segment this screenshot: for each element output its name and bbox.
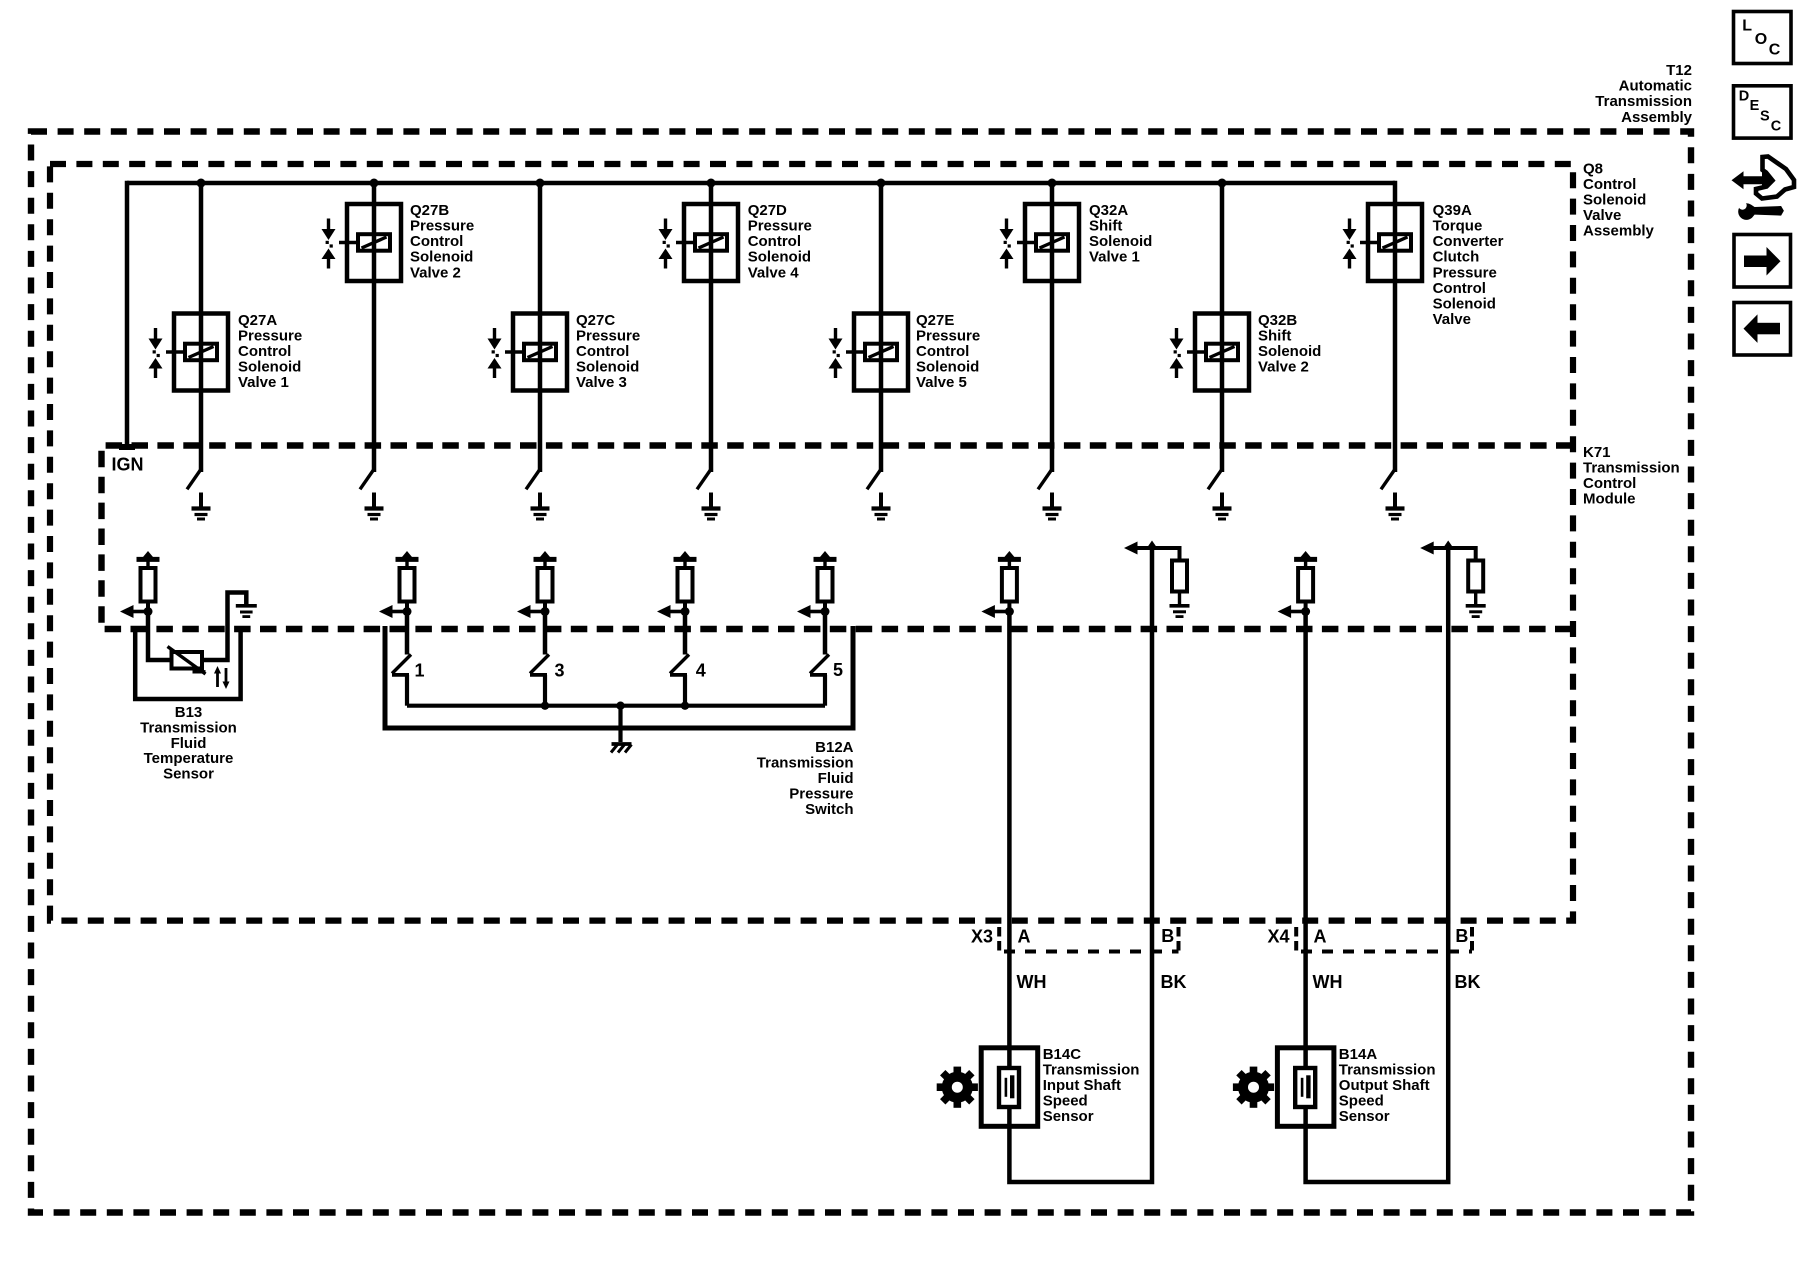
svg-text:Valve 2: Valve 2	[1258, 359, 1309, 376]
svg-text:L: L	[1742, 18, 1752, 35]
svg-text:B14C: B14C	[1043, 1046, 1082, 1063]
svg-text:Torque: Torque	[1433, 218, 1483, 235]
svg-text:Solenoid: Solenoid	[238, 359, 301, 376]
svg-text:Valve 1: Valve 1	[238, 374, 289, 391]
svg-text:K71: K71	[1583, 444, 1611, 461]
svg-text:BK: BK	[1161, 972, 1187, 992]
svg-text:Q32A: Q32A	[1089, 202, 1128, 219]
svg-text:Transmission: Transmission	[1595, 93, 1692, 110]
svg-text:3: 3	[555, 661, 565, 681]
svg-text:X4: X4	[1268, 927, 1290, 947]
svg-text:Control: Control	[748, 233, 801, 250]
svg-text:D: D	[1739, 88, 1749, 104]
svg-text:X3: X3	[971, 927, 993, 947]
svg-text:WH: WH	[1313, 972, 1343, 992]
svg-text:Valve: Valve	[1583, 207, 1621, 224]
svg-text:B: B	[1455, 926, 1468, 946]
svg-text:4: 4	[696, 661, 706, 681]
svg-text:Control: Control	[1583, 176, 1636, 193]
svg-text:Assembly: Assembly	[1621, 109, 1693, 126]
svg-text:Module: Module	[1583, 491, 1636, 508]
svg-text:Solenoid: Solenoid	[1583, 192, 1646, 209]
svg-text:Solenoid: Solenoid	[1089, 233, 1152, 250]
svg-text:Pressure: Pressure	[410, 218, 474, 235]
svg-text:1: 1	[415, 661, 425, 681]
svg-text:Valve 4: Valve 4	[748, 264, 800, 281]
svg-text:Q27B: Q27B	[410, 202, 449, 219]
svg-text:Converter: Converter	[1433, 233, 1504, 250]
svg-text:Q39A: Q39A	[1433, 202, 1472, 219]
svg-text:IGN: IGN	[112, 455, 144, 475]
svg-text:Control: Control	[1583, 475, 1636, 492]
svg-text:Control: Control	[576, 343, 629, 360]
svg-text:Switch: Switch	[805, 801, 853, 818]
svg-text:5: 5	[833, 660, 843, 680]
svg-text:Speed: Speed	[1339, 1092, 1384, 1109]
svg-text:Pressure: Pressure	[1433, 264, 1497, 281]
svg-text:Q27A: Q27A	[238, 312, 277, 329]
svg-text:WH: WH	[1017, 972, 1047, 992]
svg-text:Shift: Shift	[1089, 218, 1122, 235]
svg-text:A: A	[1314, 927, 1327, 947]
svg-text:Valve 1: Valve 1	[1089, 249, 1140, 266]
svg-text:O: O	[1755, 31, 1767, 48]
svg-text:T12: T12	[1666, 62, 1692, 79]
svg-text:Valve 2: Valve 2	[410, 264, 461, 281]
svg-text:Control: Control	[916, 343, 969, 360]
svg-text:BK: BK	[1455, 972, 1481, 992]
svg-text:Solenoid: Solenoid	[410, 249, 473, 266]
svg-text:B14A: B14A	[1339, 1046, 1378, 1063]
svg-text:Pressure: Pressure	[916, 327, 980, 344]
svg-text:Control: Control	[410, 233, 463, 250]
svg-text:Q32B: Q32B	[1258, 312, 1297, 329]
svg-text:Valve 5: Valve 5	[916, 374, 967, 391]
svg-text:Q27D: Q27D	[748, 202, 787, 219]
svg-text:B12A: B12A	[815, 739, 854, 756]
svg-text:Automatic: Automatic	[1619, 78, 1692, 95]
svg-text:Valve 3: Valve 3	[576, 374, 627, 391]
svg-text:Transmission: Transmission	[1339, 1061, 1436, 1078]
svg-text:Pressure: Pressure	[238, 327, 302, 344]
svg-text:Transmission: Transmission	[1583, 460, 1680, 477]
svg-text:Transmission: Transmission	[757, 755, 854, 772]
svg-text:Clutch: Clutch	[1433, 249, 1480, 266]
svg-text:Control: Control	[1433, 280, 1486, 297]
svg-text:Output Shaft: Output Shaft	[1339, 1077, 1430, 1094]
svg-text:Solenoid: Solenoid	[916, 359, 979, 376]
svg-text:S: S	[1760, 108, 1770, 124]
svg-text:Pressure: Pressure	[748, 218, 812, 235]
svg-text:Solenoid: Solenoid	[576, 359, 639, 376]
svg-text:Fluid: Fluid	[818, 770, 854, 787]
svg-text:Sensor: Sensor	[163, 765, 214, 782]
svg-text:Control: Control	[238, 343, 291, 360]
svg-text:Sensor: Sensor	[1043, 1108, 1094, 1125]
svg-text:Sensor: Sensor	[1339, 1108, 1390, 1125]
svg-text:Solenoid: Solenoid	[1258, 343, 1321, 360]
svg-text:Input Shaft: Input Shaft	[1043, 1077, 1121, 1094]
svg-text:B: B	[1161, 926, 1174, 946]
svg-text:C: C	[1771, 119, 1782, 135]
svg-text:Q8: Q8	[1583, 160, 1603, 177]
svg-text:Q27C: Q27C	[576, 312, 615, 329]
svg-text:Valve: Valve	[1433, 311, 1471, 328]
svg-text:Q27E: Q27E	[916, 312, 954, 329]
svg-text:Speed: Speed	[1043, 1092, 1088, 1109]
svg-text:Assembly: Assembly	[1583, 223, 1655, 240]
svg-text:Solenoid: Solenoid	[748, 249, 811, 266]
svg-text:Pressure: Pressure	[576, 327, 640, 344]
svg-text:A: A	[1018, 927, 1031, 947]
svg-text:Transmission: Transmission	[1043, 1061, 1140, 1078]
svg-text:C: C	[1769, 42, 1781, 59]
svg-text:Shift: Shift	[1258, 327, 1291, 344]
svg-text:Pressure: Pressure	[789, 786, 853, 803]
svg-text:E: E	[1750, 98, 1760, 114]
svg-text:Solenoid: Solenoid	[1433, 296, 1496, 313]
